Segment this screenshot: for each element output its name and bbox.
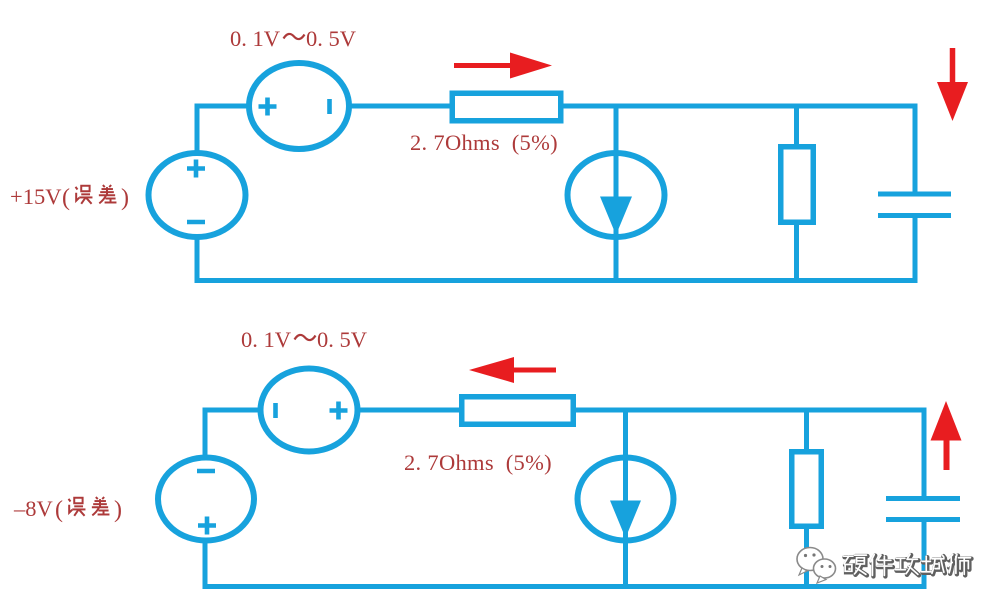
current source I1 (circle) <box>568 153 665 237</box>
current arrow (red, right) above R1 <box>454 53 552 79</box>
voltage source V2 0.1V-0.5V (circle) <box>249 63 349 149</box>
capacitor C2 bottom plate <box>886 517 960 522</box>
wire: left vertical upper (corner to V1 top) <box>195 104 200 157</box>
I1 arrowhead (down) <box>600 197 632 236</box>
wire: left vertical upper (corner to V3 top) <box>203 408 208 461</box>
wire: bottom rail of top circuit <box>195 278 918 283</box>
V2 minus (vertical bar) mark <box>327 99 332 114</box>
svg-text:(: ( <box>62 185 70 211</box>
svg-text:–8V: –8V <box>13 496 53 521</box>
label 0.1V~0.5V (bottom) <box>241 327 367 352</box>
I2 arrowhead (down) <box>610 501 641 539</box>
svg-text:): ) <box>114 497 122 523</box>
label 0.1V~0.5V (top) <box>230 26 356 51</box>
wire: resistor R2 top lead <box>794 106 799 148</box>
resistor R4 (vertical) <box>792 452 822 527</box>
wire: R3 right to top-right corner down to capacitor C2 <box>574 410 924 501</box>
wire: R1 right to top-right corner down to capacitor C1 <box>563 106 915 196</box>
svg-text:0. 1V: 0. 1V <box>230 26 280 51</box>
current arrow (red, up) at bottom right <box>931 401 962 470</box>
wire: current source I2 vertical through <box>623 410 628 587</box>
char 差 <box>92 497 110 515</box>
voltage source V1 +15V (circle) <box>149 153 246 237</box>
wire: resistor R4 bottom lead <box>804 526 809 587</box>
V1 plus mark <box>187 160 205 178</box>
wire: capacitor C2 bottom to bottom rail <box>922 522 927 590</box>
wire: left vertical lower (V3 bottom to bottom rail) <box>203 538 208 589</box>
resistor R2 (vertical) <box>781 147 814 223</box>
current arrow (red, left) above R3 <box>469 357 556 383</box>
watermark logo (chat bubbles) <box>797 548 836 584</box>
current source I2 (circle) <box>578 458 674 541</box>
char 误 <box>69 498 86 516</box>
wire: top-left corner horizontal to V4 <box>203 408 264 413</box>
svg-text:(: ( <box>55 497 63 523</box>
label -8V(误差) <box>13 496 122 523</box>
wire: V4 right to resistor R3 <box>355 408 462 413</box>
svg-text:+15V: +15V <box>10 184 61 209</box>
svg-text:0. 1V: 0. 1V <box>241 327 291 352</box>
label +15V(误差) <box>10 184 129 211</box>
wire: V2 right to resistor R1 <box>345 104 452 109</box>
wire: current source I1 vertical through <box>614 106 619 281</box>
resistor R3 (horizontal) <box>462 397 574 425</box>
capacitor C1 bottom plate <box>878 213 951 218</box>
wire: bottom rail of bottom circuit <box>203 584 927 589</box>
V4 minus (vertical bar) mark <box>273 403 278 418</box>
wire: resistor R4 top lead <box>804 410 809 453</box>
svg-text:): ) <box>121 185 129 211</box>
svg-text:2. 7Ohms (5%): 2. 7Ohms (5%) <box>410 130 558 155</box>
svg-text:2. 7Ohms (5%): 2. 7Ohms (5%) <box>404 450 552 475</box>
V3 plus mark <box>198 517 216 535</box>
current arrow (red, down) at top right <box>937 48 968 121</box>
capacitor C2 top plate <box>886 496 960 501</box>
V4 plus mark <box>330 402 348 420</box>
char 误 <box>76 186 93 204</box>
voltage source V3 -8V (circle) <box>158 458 254 541</box>
wire: capacitor C1 bottom to bottom rail <box>913 217 918 284</box>
svg-text:0. 5V: 0. 5V <box>306 26 356 51</box>
wire: top-left corner horizontal to V2 <box>195 104 254 109</box>
V2 plus mark <box>259 98 277 116</box>
char 差 <box>99 185 117 203</box>
watermark text 硬件攻城狮 <box>844 554 972 576</box>
wire: left vertical lower (V1 bottom to bottom rail) <box>195 234 200 283</box>
V1 minus mark <box>187 220 205 225</box>
V3 minus mark <box>197 469 215 474</box>
resistor R1 (horizontal) <box>452 93 561 121</box>
voltage source V4 0.1V-0.5V (circle) <box>261 369 358 452</box>
svg-text:0. 5V: 0. 5V <box>317 327 367 352</box>
capacitor C1 top plate <box>878 192 951 197</box>
wire: resistor R2 bottom lead <box>794 222 799 281</box>
